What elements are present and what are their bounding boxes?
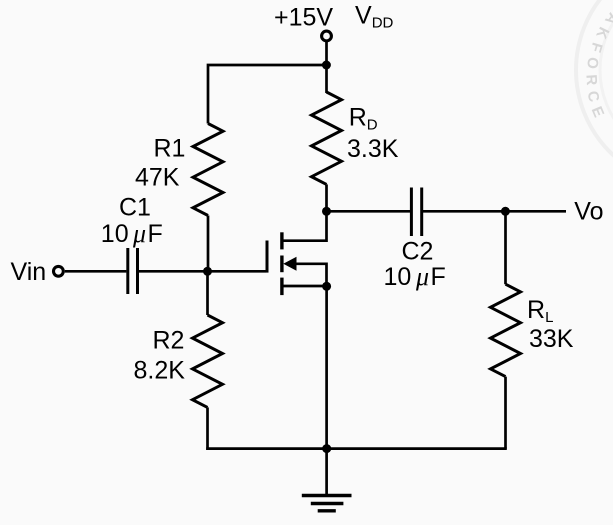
wire Vin to C1 [65,270,127,273]
svg-text:R2: R2 [153,326,185,354]
svg-text:+15V: +15V [274,4,333,32]
svg-text:VDD: VDD [355,2,394,32]
ground [302,496,352,511]
watermark ring [576,0,613,186]
transistor Q1 N-MOSFET [267,212,327,295]
channel segment middle [280,256,283,273]
wire Vo node to RL [504,211,507,284]
wire C2 to Vo [423,210,566,213]
channel segment top [280,232,283,249]
svg-text:RD: RD [349,104,378,134]
resistor RD [312,92,342,184]
wire RL bottom to rail [504,377,507,449]
resistor R1 [193,124,223,216]
wire gate node to R2 [206,271,209,315]
svg-text:3.3K: 3.3K [347,135,399,163]
svg-text:47K: 47K [135,163,180,191]
svg-text:Vo: Vo [574,197,603,225]
wire R1 bottom to gate node [207,216,210,272]
terminal VDD [322,31,332,41]
svg-text:10μF: 10μF [101,219,163,248]
channel segment bottom [280,278,283,296]
wire VDD terminal to RD top [325,41,328,93]
node drain junction [322,207,331,216]
wire C1 to gate [139,270,266,273]
resistor R2 [193,315,223,407]
drain lead [282,212,327,241]
source lead [282,285,327,288]
body lead [295,264,327,287]
capacitor C1 [128,248,138,294]
wire drain node to C2 [327,210,411,213]
capacitor C2 [411,188,421,237]
node gate junction [203,267,212,276]
terminal Vin [54,266,64,276]
wire top rail to R1 [208,65,327,124]
svg-text:C1: C1 [119,194,151,222]
node source junction [322,282,331,291]
body arrow [283,257,296,271]
svg-text:10μF: 10μF [384,262,446,291]
node ground junction [322,444,331,453]
node Vo junction [501,207,510,216]
wire source to ground [325,287,328,496]
svg-text:33K: 33K [529,325,574,353]
wire RD bottom to drain node [325,184,328,212]
resistor RL [491,284,521,376]
wire R2 bottom to rail [206,407,209,450]
svg-text:RL: RL [527,296,553,326]
gate bar [266,241,269,273]
node VDD junction [322,61,331,70]
wire bottom rail [206,447,507,450]
svg-text:8.2K: 8.2K [134,356,186,384]
svg-text:Vin: Vin [11,258,47,286]
svg-text:R1: R1 [154,135,186,163]
